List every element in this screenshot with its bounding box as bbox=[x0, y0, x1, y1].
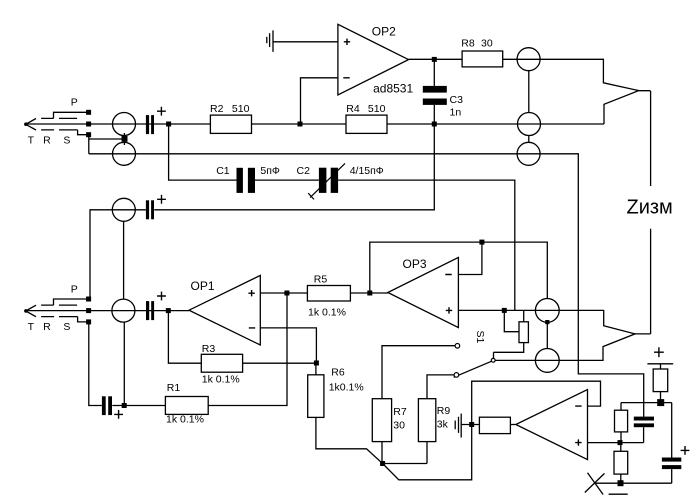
svg-text:P: P bbox=[71, 97, 78, 109]
node dot OP4 ground bbox=[469, 422, 474, 427]
resistor R4 bbox=[346, 115, 387, 133]
svg-text:R2: R2 bbox=[210, 103, 224, 115]
svg-text:R8: R8 bbox=[461, 37, 475, 49]
resistor Rb2 (supply) bbox=[653, 369, 668, 392]
connector X1 (TRS jack, top) bbox=[24, 112, 89, 134]
node dot OP3 out bbox=[367, 291, 372, 296]
connector X2 (TRS jack, bottom) bbox=[24, 299, 89, 322]
supply terminal bar + bbox=[647, 363, 673, 365]
wire pot top to + row bbox=[523, 310, 525, 321]
svg-text:510: 510 bbox=[368, 103, 386, 115]
svg-text:4/15пФ: 4/15пФ bbox=[350, 165, 384, 177]
capacitor C4 bbox=[634, 417, 654, 421]
generator circle G3 bbox=[112, 198, 135, 221]
node dot R5/R1 junction bbox=[284, 291, 289, 296]
resistor R2 bbox=[210, 115, 251, 133]
node dot R2/R4 feedback bbox=[298, 122, 303, 127]
wire link between G1 and G2 bbox=[89, 133, 125, 145]
wire OP2 + input bbox=[273, 41, 338, 43]
svg-text:T: T bbox=[28, 321, 35, 333]
capacitor Cp3 (polarized, OP1 row) bbox=[146, 301, 149, 320]
op-amp OP1 bbox=[189, 275, 260, 345]
svg-text:5пФ: 5пФ bbox=[260, 165, 280, 177]
svg-text:OP1: OP1 bbox=[191, 279, 215, 293]
svg-text:R9: R9 bbox=[437, 405, 451, 417]
wire S2 riser and R1 row start bbox=[89, 293, 287, 406]
capacitor C2 (trimmer) bbox=[319, 168, 327, 193]
node dots connector X2 bbox=[86, 297, 91, 302]
wire N2 down to R3 row bbox=[168, 311, 316, 364]
generator circle G1 bbox=[113, 113, 136, 136]
wire N3 up to G4 bbox=[123, 322, 125, 403]
svg-text:R4: R4 bbox=[346, 103, 360, 115]
resistor Rb4 bbox=[614, 451, 628, 474]
svg-text:S1: S1 bbox=[474, 331, 486, 344]
svg-text:1k 0.1%: 1k 0.1% bbox=[166, 413, 204, 425]
resistor R3 bbox=[201, 354, 242, 372]
node dots connector X1 bbox=[86, 110, 91, 115]
svg-text:1n: 1n bbox=[450, 107, 462, 119]
svg-text:ad8531: ad8531 bbox=[373, 82, 413, 96]
wire Rb1 to OP4 apex bbox=[510, 424, 515, 426]
op-amp OP2 bbox=[338, 24, 409, 95]
wire supply row y402 bbox=[621, 402, 672, 404]
wire links G5-G6-G7 bbox=[528, 71, 530, 142]
svg-text:C1: C1 bbox=[216, 165, 230, 177]
resistor Rb1 (OP4 output) bbox=[479, 417, 510, 433]
switch S1 blade bbox=[454, 361, 492, 377]
svg-text:T: T bbox=[28, 135, 35, 147]
generator circle G6 bbox=[518, 113, 541, 136]
wire OP1 - input bbox=[260, 328, 316, 363]
svg-text:30: 30 bbox=[481, 37, 493, 49]
wire OP3 - input bbox=[458, 242, 482, 274]
resistor R1 bbox=[165, 397, 208, 415]
svg-text:OP2: OP2 bbox=[372, 24, 396, 38]
svg-text:R: R bbox=[43, 135, 51, 147]
svg-text:C2: C2 bbox=[297, 165, 311, 177]
svg-text:P: P bbox=[71, 283, 78, 295]
svg-text:S: S bbox=[63, 321, 70, 333]
switch S1 contacts bbox=[455, 344, 460, 349]
generator circle G8 bbox=[535, 299, 559, 323]
node dot OP3 + bbox=[502, 308, 507, 313]
svg-text:OP3: OP3 bbox=[403, 257, 427, 271]
node dot main/C3 bbox=[432, 122, 437, 127]
wire R7 top to switch throw 1 bbox=[382, 346, 455, 399]
capacitor Cp2 (polarized, middle row) bbox=[146, 200, 149, 219]
svg-text:R1: R1 bbox=[167, 382, 181, 394]
ground at OP4 bbox=[455, 414, 461, 438]
capacitor C3 bbox=[433, 59, 435, 124]
resistor R8 bbox=[462, 51, 503, 67]
potentiometer RP (S1 area) bbox=[519, 322, 528, 343]
node dot G8-G9 link bbox=[545, 320, 549, 324]
wire OP3 + row through G8 to probe2 bbox=[458, 310, 635, 360]
node dot OP3 feedback bbox=[479, 240, 484, 245]
ground at OP2 + input bbox=[267, 30, 273, 52]
generator circle G5 bbox=[517, 48, 540, 71]
node dot Rb2 bottom bbox=[657, 399, 664, 406]
op-amp OP4 bbox=[516, 390, 588, 460]
resistor R9 bbox=[418, 399, 435, 442]
wire OP3 + down to pot wiper bbox=[504, 310, 519, 331]
wire R8 to probe (upper) bbox=[503, 59, 639, 124]
svg-text:R6: R6 bbox=[331, 366, 345, 378]
wire main line bottom plug row bbox=[26, 310, 189, 312]
wire N1 down to C1C2 row, C1 C2 row to OP3 + bbox=[169, 124, 515, 310]
generator circle G4 bbox=[112, 299, 135, 322]
svg-text:Zизм: Zизм bbox=[627, 197, 673, 219]
wire junction to OP4 ground node bbox=[383, 425, 472, 480]
resistor R5 bbox=[307, 286, 350, 302]
resistor R6 bbox=[308, 375, 324, 418]
wire R6 bottom to junction bbox=[316, 417, 383, 463]
resistor R7 bbox=[372, 399, 391, 442]
svg-text:R7: R7 bbox=[393, 406, 407, 418]
svg-text:1k 0.1%: 1k 0.1% bbox=[202, 374, 240, 386]
node dot bottom row bbox=[618, 480, 624, 486]
minus polarity mark bbox=[609, 493, 628, 495]
wire OP2 output bbox=[409, 58, 463, 60]
svg-text:1k 0.1%: 1k 0.1% bbox=[308, 306, 346, 318]
capacitor C1 bbox=[237, 168, 243, 193]
wire bottom junction row bbox=[382, 442, 427, 464]
generator circle G2 bbox=[113, 142, 136, 165]
op-amp OP3 bbox=[388, 257, 459, 327]
node dot OP4 + bbox=[618, 440, 623, 445]
node dot OP2 output bbox=[432, 57, 437, 62]
generator circle G9 bbox=[535, 349, 559, 373]
generator circle G7 bbox=[517, 142, 540, 165]
wire middle row (plug2 P to main junction) bbox=[90, 124, 434, 299]
wire main line top row bbox=[26, 123, 604, 125]
capacitor C5 (polarized big) bbox=[671, 403, 673, 484]
svg-text:S: S bbox=[63, 135, 70, 147]
wire R9 top to switch throw 2 bbox=[427, 375, 454, 399]
X mark (no connection) bbox=[585, 473, 605, 495]
wire R6 top bbox=[315, 363, 317, 375]
svg-text:R5: R5 bbox=[314, 273, 328, 285]
node N3 bbox=[122, 403, 127, 408]
wire OP4 - feedback loop bbox=[472, 381, 601, 424]
svg-text:R3: R3 bbox=[202, 343, 216, 355]
node dot R3/R6/OP1- bbox=[314, 361, 319, 366]
svg-text:1k0.1%: 1k0.1% bbox=[329, 382, 364, 394]
capacitor Cp1 (polarized, top row) bbox=[146, 115, 149, 134]
wire bottom row to X bbox=[596, 482, 672, 484]
wire pot bottom to switch pole bbox=[494, 343, 524, 359]
svg-text:3k: 3k bbox=[437, 418, 449, 430]
node dot between G1 G2 bbox=[122, 136, 128, 142]
wire OP2 - feedback bbox=[301, 78, 338, 124]
node dot bottom junction bbox=[380, 461, 385, 466]
svg-text:510: 510 bbox=[232, 103, 250, 115]
wire link G3-G4 bbox=[123, 222, 125, 300]
wire link G8-G9 bbox=[546, 322, 548, 348]
node N2 bbox=[166, 308, 171, 313]
node N1 bbox=[166, 122, 171, 127]
resistor Rb3 bbox=[615, 410, 628, 432]
svg-text:C3: C3 bbox=[450, 94, 464, 106]
wire R5 row (OP1 + to OP3 output) bbox=[260, 292, 388, 294]
wire OP3 feedback row bbox=[370, 242, 548, 298]
svg-text:R: R bbox=[43, 321, 51, 333]
wire OP4 + row bbox=[588, 442, 644, 444]
measurement bracket Zизм bbox=[635, 91, 651, 334]
wire S1-contact riser and row2 (to bottom-right cap C4) bbox=[89, 135, 644, 417]
svg-text:30: 30 bbox=[393, 419, 405, 431]
capacitor Cp4 (polarized, R1 row) bbox=[102, 396, 106, 415]
